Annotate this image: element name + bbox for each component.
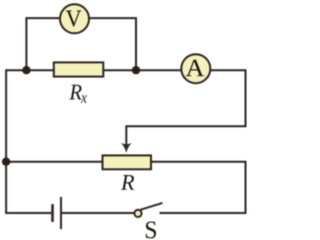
rheostat R body: [103, 155, 152, 169]
node: junction dot left of Rx: [22, 66, 30, 74]
switch S lever: [140, 203, 162, 210]
node: junction dot on left vertical at middle row: [2, 158, 10, 166]
voltmeter V circle: [60, 4, 89, 33]
switch S pivot: [134, 210, 141, 217]
wire: left vertical + top row + right upper vertical + wiper feed: [6, 70, 245, 213]
node: junction dot right of Rx: [132, 66, 140, 74]
battery cell: long positive plate: [60, 197, 62, 229]
voltmeter label V: [66, 11, 82, 27]
ammeter A circle: [181, 54, 210, 83]
wire: voltmeter branch loop: [26, 18, 136, 70]
battery cell: short negative plate: [51, 204, 54, 222]
resistor Rx body: [54, 62, 104, 76]
label Rx subscript x: [81, 95, 87, 102]
label S: [146, 222, 156, 239]
wire: battery to switch segment: [62, 212, 134, 214]
wire: bottom row right segment + right lower vertical + middle row: [6, 162, 245, 213]
label Rx: [69, 85, 81, 100]
label R: [121, 175, 134, 190]
ammeter label A: [186, 60, 204, 76]
arrowhead on wiper: [121, 143, 132, 153]
